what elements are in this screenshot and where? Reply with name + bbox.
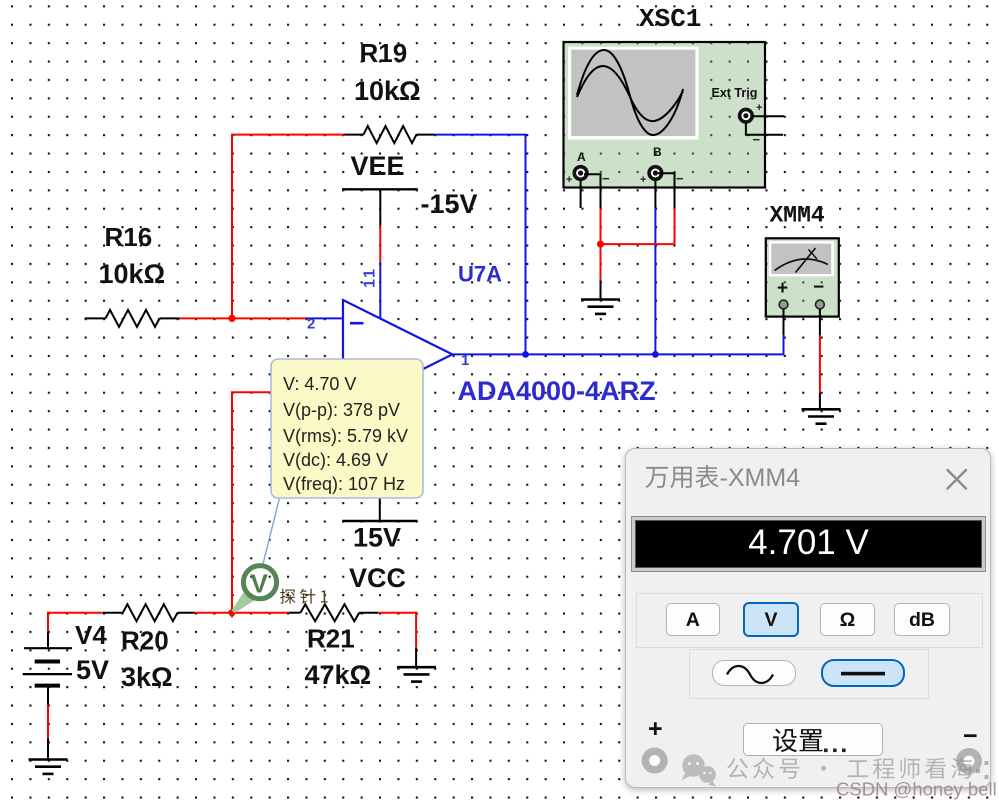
dialog decorations svg (626, 449, 990, 787)
svg-text:−: − (813, 277, 824, 298)
wire black scope B side (658, 173, 675, 208)
node junction dot scope ground net (597, 241, 604, 248)
svg-text:U7A: U7A (458, 262, 502, 287)
svg-text:-15V: -15V (421, 189, 478, 219)
wire black ground lead R21 (415, 648, 417, 667)
svg-text:1: 1 (461, 352, 469, 369)
svg-text:+: + (566, 174, 572, 186)
meter arc (775, 259, 829, 271)
ground XMM4 (802, 408, 841, 411)
wire red pin3 horizontal (231, 391, 330, 393)
wire red R21 to ground (378, 612, 416, 614)
settings button CJK (773, 729, 822, 753)
terminal Ext Trig (740, 109, 753, 122)
wire red V4 corner down (47, 612, 49, 632)
wave group (689, 649, 929, 699)
button dB (894, 603, 950, 636)
dialog title CJK (645, 465, 718, 488)
svg-text:5V: 5V (76, 655, 109, 685)
wire red bottom net across R20-R21 (195, 612, 289, 614)
svg-text:+: + (640, 174, 646, 186)
resistor R21 (289, 612, 301, 614)
multimeter screen (769, 241, 834, 276)
terminal rings (642, 747, 668, 773)
wire black scope A side (584, 174, 601, 208)
wire red scope B side down (674, 208, 676, 245)
plus terminal label (648, 715, 663, 744)
wire black ground lead V4 (47, 738, 49, 759)
wire black XMM plus stub (783, 309, 785, 336)
wire black scope A stub (580, 180, 582, 208)
power VCC bar (342, 520, 417, 522)
wire red pin3 riser vertical (231, 392, 233, 614)
scope waveform small (577, 66, 683, 121)
minus terminal label (963, 722, 978, 751)
svg-text:+: + (756, 102, 762, 114)
wire blue output net (452, 353, 784, 355)
svg-text:R21: R21 (307, 624, 355, 654)
svg-text:2: 2 (307, 316, 315, 333)
svg-text:V: 4.70 V: V: 4.70 V (283, 374, 356, 394)
svg-text:VEE: VEE (351, 151, 405, 181)
scope waveform big (577, 50, 683, 135)
wire blue feedback right (435, 134, 527, 136)
settings button (743, 723, 883, 756)
terminal A (574, 167, 587, 180)
terminal B (649, 167, 662, 180)
node junction dot feedback/output (522, 351, 529, 358)
wire red V4 to R20 (47, 612, 103, 614)
svg-text:V: V (251, 569, 269, 599)
svg-text:V(rms): 5.79 kV: V(rms): 5.79 kV (283, 426, 408, 446)
dc glyph (841, 671, 885, 675)
resistor R20 (103, 612, 123, 614)
svg-text:47kΩ: 47kΩ (305, 660, 372, 690)
tooltip measurement box (271, 359, 423, 498)
wire red junction stub (231, 613, 233, 618)
power VCC stub (379, 498, 381, 522)
ground V4 (29, 758, 68, 761)
wire red XMM minus (819, 335, 821, 392)
node junction dot inverting input net (228, 315, 235, 322)
wire red feedback top horizontal (231, 134, 346, 136)
probe name 探针1 (280, 589, 327, 604)
display bezel (631, 516, 986, 572)
close X (948, 470, 967, 489)
wire black V4 bottom lead (47, 686, 49, 705)
button Ohm (820, 603, 875, 636)
multimeter terminal minus (816, 300, 825, 309)
button dc selected (821, 659, 905, 687)
button V selected (743, 602, 799, 637)
wire blue opamp pin11 (379, 262, 381, 318)
svg-text:B: B (653, 145, 662, 159)
wire blue XMM plus riser (783, 335, 785, 355)
svg-text:−: − (602, 171, 610, 186)
svg-text:ADA4000-4ARZ: ADA4000-4ARZ (458, 376, 656, 406)
wire red V4 to ground (47, 705, 49, 738)
watermark text (727, 758, 972, 779)
svg-text:R16: R16 (105, 222, 153, 252)
resistor R16 (85, 317, 106, 319)
svg-text:10kΩ: 10kΩ (99, 259, 166, 289)
probe pointer line from tooltip (263, 498, 280, 566)
svg-text:R20: R20 (121, 626, 169, 656)
battery V4 (24, 647, 72, 649)
op-amp minus sign (350, 322, 364, 325)
svg-text:XMM4: XMM4 (770, 203, 825, 229)
wire black V4 top lead (47, 631, 49, 648)
wire blue scope B riser (654, 208, 656, 354)
svg-text:V(p-p): 378 pV: V(p-p): 378 pV (283, 400, 400, 420)
meter tick (809, 250, 818, 260)
button sine (712, 660, 796, 686)
wire red scope A down (600, 208, 602, 280)
svg-text:V(freq): 107 Hz: V(freq): 107 Hz (283, 474, 405, 494)
op-amp U7A triangle (343, 300, 452, 409)
wire black VEE stub (379, 189, 381, 226)
svg-text:VCC: VCC (349, 563, 406, 593)
svg-text:10kΩ: 10kΩ (354, 76, 421, 106)
node junction dot scopeB/output (652, 351, 659, 358)
power VEE bar (342, 188, 418, 190)
oscilloscope XSC1 body (564, 42, 766, 188)
ground R21 (397, 666, 436, 669)
probe tail (232, 593, 255, 614)
svg-text:XSC1: XSC1 (639, 4, 701, 34)
multimeter terminal plus (779, 300, 788, 309)
svg-text:−: − (676, 171, 684, 186)
svg-text:V4: V4 (75, 620, 107, 650)
svg-text:11: 11 (362, 267, 379, 288)
wire red R16 output to opamp (180, 317, 307, 319)
wire red VEE stub (379, 226, 381, 262)
svg-text:3kΩ: 3kΩ (121, 662, 173, 692)
svg-text:+: + (777, 278, 788, 299)
node junction dot probe net (228, 609, 235, 616)
wire red feedback left vertical (231, 135, 233, 320)
ground scope (581, 298, 620, 301)
wire ext trig plus (753, 115, 785, 117)
svg-text:15V: 15V (353, 523, 401, 553)
wire black ground lead scope (600, 281, 602, 300)
button A (666, 603, 720, 636)
resistor R19 (345, 134, 364, 136)
mode group (636, 593, 983, 648)
wire ext trig minus (746, 122, 783, 135)
wire black XMM minus stub (819, 309, 821, 336)
oscilloscope screen (568, 47, 699, 140)
wire red B minus horizontal (601, 243, 675, 245)
meter needle (796, 248, 816, 273)
svg-text:Ext Trig: Ext Trig (712, 86, 758, 100)
multimeter XMM4 body (766, 238, 839, 316)
wire black scope B stub (654, 180, 656, 208)
wire black ground lead XMM (819, 393, 821, 410)
sine glyph (727, 666, 773, 683)
svg-text:A: A (577, 150, 586, 164)
multimeter dialog window (625, 448, 991, 788)
wechat watermark icon (682, 754, 717, 786)
svg-text:R19: R19 (360, 38, 408, 68)
probe circle V (243, 566, 276, 599)
svg-text:V(dc): 4.69 V: V(dc): 4.69 V (283, 450, 388, 470)
wire blue opamp pin2 (306, 317, 344, 319)
